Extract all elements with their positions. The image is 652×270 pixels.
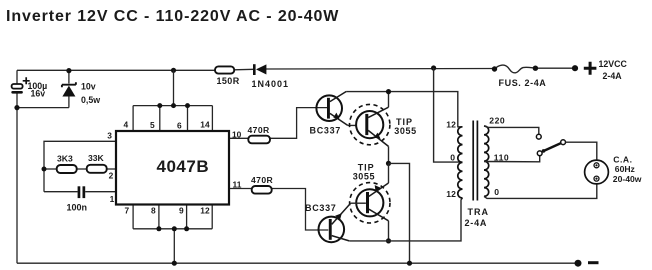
- svg-text:12: 12: [446, 120, 456, 130]
- node bottom rail dot: [407, 261, 412, 266]
- node: RC junction dot: [42, 167, 47, 172]
- wire switch pivot to outlet top: [566, 142, 597, 160]
- svg-text:4: 4: [124, 120, 129, 130]
- node lower collector junction: [386, 238, 391, 243]
- svg-text:470R: 470R: [248, 125, 271, 135]
- node: IC top bus dots: [157, 103, 162, 108]
- wire IC supply drop from top rail to top bus: [173, 70, 175, 105]
- svg-text:3055: 3055: [353, 171, 375, 181]
- transformer core: [472, 121, 474, 201]
- - terminal: [575, 260, 599, 267]
- wire pin 3 to RC node: [44, 141, 116, 191]
- resistor R5 470R (lower): [251, 175, 274, 194]
- svg-text:3055: 3055: [394, 126, 416, 136]
- svg-text:14: 14: [200, 120, 210, 130]
- wire upper TIP collector riser: [388, 92, 390, 108]
- svg-text:2-4A: 2-4A: [465, 218, 488, 228]
- svg-text:1N4001: 1N4001: [252, 79, 290, 89]
- svg-text:220: 220: [489, 116, 505, 126]
- svg-text:2-4A: 2-4A: [603, 71, 623, 81]
- svg-text:BC337: BC337: [305, 203, 337, 213]
- svg-text:12: 12: [200, 206, 210, 216]
- wire secondary 220 tap to switch contact: [484, 126, 539, 134]
- resistor R4 470R (upper): [248, 125, 271, 143]
- svg-text:BC337: BC337: [310, 125, 342, 135]
- wire top rail right segment (diode to fuse): [266, 68, 495, 71]
- svg-text:4047B: 4047B: [157, 157, 210, 176]
- svg-text:12: 12: [446, 189, 456, 199]
- transistor Q1 BC337 (upper): [310, 92, 348, 136]
- diode D1 1N4001: [252, 64, 290, 89]
- transformer TRA 2-4A primary winding: [458, 127, 463, 198]
- wire lower TIP collector drop: [388, 221, 390, 241]
- wire top rail mid segment (150R to diode): [234, 68, 254, 71]
- svg-text:10: 10: [232, 130, 242, 140]
- wire lower BC337 emitter to lower TIP base: [351, 202, 366, 204]
- wire IC top bus: [133, 105, 212, 107]
- svg-text:470R: 470R: [251, 175, 274, 185]
- node: IC bottom bus dots: [156, 226, 161, 231]
- svg-text:20-40w: 20-40w: [613, 174, 642, 184]
- wire bottom rail: [17, 262, 578, 264]
- node emitter junction: [386, 161, 391, 166]
- svg-text:5: 5: [150, 120, 155, 130]
- switch contact 220: [536, 134, 541, 139]
- outlet C.A. socket: [585, 155, 642, 184]
- + terminal 12VCC: [572, 59, 628, 81]
- wire pin 8 stub: [158, 205, 160, 229]
- svg-text:0,5w: 0,5w: [81, 95, 100, 105]
- wire 470R to lower BC337 base: [272, 189, 329, 231]
- wire 3K3 to 33K: [77, 168, 87, 170]
- svg-text:11: 11: [233, 180, 242, 190]
- wire lower collector junction to transformer bottom tap: [389, 198, 463, 241]
- wire RC node to 3K3: [44, 168, 57, 170]
- node: top rail junction dots: [66, 68, 71, 73]
- resistor R3 33K: [87, 153, 107, 173]
- wire pin 10 to 470R: [229, 137, 248, 139]
- wire 33K to pin 2: [107, 168, 116, 170]
- svg-text:16v: 16v: [31, 88, 46, 98]
- svg-text:6: 6: [177, 121, 182, 131]
- wire pin 12 stub: [211, 205, 213, 229]
- wire 470R to upper BC337 base: [270, 108, 327, 139]
- wire top rail left segment: [17, 69, 215, 71]
- svg-text:1: 1: [110, 194, 115, 204]
- wire upper BC337 emitter to upper TIP base: [348, 124, 366, 126]
- svg-text:100n: 100n: [67, 203, 88, 213]
- wire left rail: [16, 70, 18, 84]
- wire pin 5 stub: [159, 106, 161, 131]
- svg-text:FUS. 2-4A: FUS. 2-4A: [499, 78, 547, 88]
- resistor 150R: [215, 66, 240, 86]
- node: bottom rail dot under IC: [172, 261, 177, 266]
- wire pin 7 stub: [132, 205, 134, 229]
- zener diode D2 10v 0,5w: [17, 70, 100, 107]
- wire ground drop from bottom bus to bottom rail: [173, 229, 175, 263]
- wire center-tap feed from top rail: [434, 68, 463, 162]
- capacitor C1 100u 16v: [11, 77, 47, 98]
- resistor R2 3K3: [57, 154, 77, 174]
- wire pin 6 stub: [187, 106, 189, 131]
- wire pin 9 stub: [186, 205, 188, 229]
- svg-text:TRA: TRA: [468, 207, 490, 217]
- svg-text:8: 8: [151, 206, 156, 216]
- wire lower TIP emitter riser: [388, 163, 390, 183]
- svg-text:12VCC: 12VCC: [599, 59, 628, 69]
- svg-text:10v: 10v: [81, 82, 96, 92]
- wire pin 11 to 470R: [229, 188, 252, 190]
- node collector junction (upper): [386, 89, 391, 94]
- transistor Q2 TIP 3055 (upper): [350, 104, 417, 146]
- svg-text:9: 9: [179, 206, 184, 216]
- wire upper TIP emitter drop: [388, 146, 390, 163]
- capacitor C2 100n: [67, 186, 88, 212]
- svg-text:150R: 150R: [217, 76, 240, 86]
- transistor Q4 TIP 3055 (lower): [350, 163, 390, 223]
- switch lever: [543, 143, 562, 151]
- wire 100n to pin 1: [85, 191, 116, 193]
- svg-text:0: 0: [494, 187, 499, 197]
- svg-text:0: 0: [450, 153, 455, 163]
- svg-text:3: 3: [107, 131, 112, 141]
- wire pin 14 stub: [211, 106, 213, 131]
- wire lower BC337 collector to junction: [349, 240, 388, 242]
- svg-text:3K3: 3K3: [57, 154, 73, 164]
- wire secondary 0 tap to outlet bottom: [484, 184, 597, 198]
- transformer secondary winding: [484, 126, 489, 196]
- svg-text:60Hz: 60Hz: [615, 164, 635, 174]
- wire IC bottom bus: [133, 228, 212, 230]
- transistor Q3 BC337 (lower): [305, 203, 351, 242]
- wire emitter junction to bottom rail: [389, 163, 410, 263]
- svg-text:2: 2: [109, 171, 114, 181]
- node: left rail / zener return junction: [14, 105, 19, 110]
- wire top rail after fuse to + terminal: [535, 67, 575, 69]
- svg-text:33K: 33K: [88, 153, 105, 163]
- wire upper collectors to transformer top tap: [346, 92, 462, 127]
- switch contact 110: [537, 151, 542, 156]
- svg-text:110: 110: [494, 153, 509, 163]
- fuse FUS. 2-4A: [492, 65, 547, 88]
- op-amp U1 4047B IC body: [116, 131, 229, 205]
- wire secondary 110 tap to switch contact: [484, 156, 540, 162]
- wire pin 4 stub: [132, 106, 134, 131]
- svg-text:Inverter 12V CC - 110-220V AC: Inverter 12V CC - 110-220V AC - 20-40W: [6, 8, 339, 25]
- svg-text:7: 7: [125, 206, 130, 216]
- wire RC node to 100n: [44, 191, 78, 193]
- switch pivot: [561, 140, 566, 145]
